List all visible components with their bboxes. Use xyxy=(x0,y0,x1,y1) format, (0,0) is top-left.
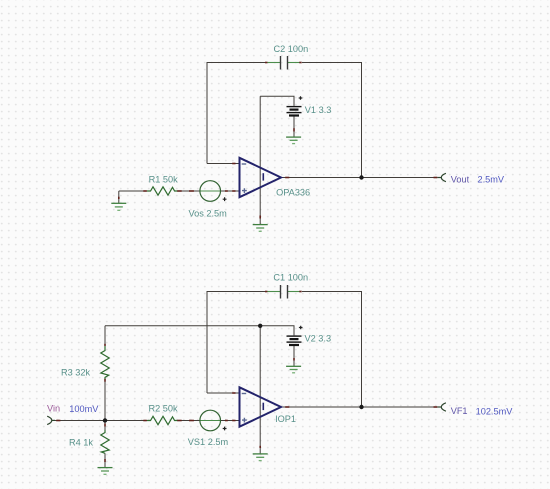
svg-text:102.5mV: 102.5mV xyxy=(476,407,514,417)
svg-text:100mV: 100mV xyxy=(69,404,99,414)
svg-text:2.5mV: 2.5mV xyxy=(478,175,505,185)
svg-text:VS1 2.5m: VS1 2.5m xyxy=(188,437,229,447)
svg-text:Vout: Vout xyxy=(451,175,470,185)
svg-text:V2 3.3: V2 3.3 xyxy=(305,333,332,343)
svg-text:OPA336: OPA336 xyxy=(276,188,310,198)
svg-text:VF1: VF1 xyxy=(451,406,468,416)
svg-text:R3 32k: R3 32k xyxy=(61,368,91,378)
svg-text:C2 100n: C2 100n xyxy=(274,44,309,54)
svg-text:C1 100n: C1 100n xyxy=(273,273,308,283)
svg-text:R4 1k: R4 1k xyxy=(69,438,93,448)
svg-text:Vos 2.5m: Vos 2.5m xyxy=(189,208,228,218)
svg-text:Vin: Vin xyxy=(47,403,60,413)
svg-text:R1 50k: R1 50k xyxy=(149,175,179,185)
svg-text:V1 3.3: V1 3.3 xyxy=(305,105,332,115)
svg-text:IOP1: IOP1 xyxy=(275,414,296,424)
svg-text:R2 50k: R2 50k xyxy=(149,403,179,413)
